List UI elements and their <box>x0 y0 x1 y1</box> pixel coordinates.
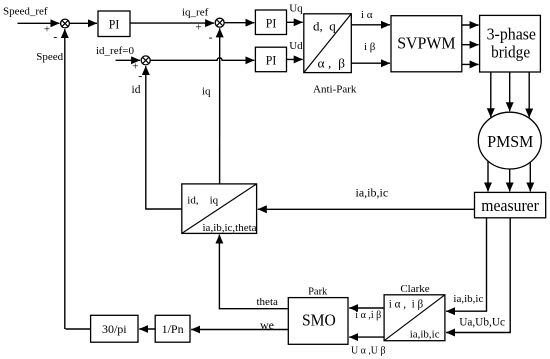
svg-text:-: - <box>138 69 142 83</box>
svg-text:id, iq: id, iq <box>187 194 218 206</box>
svg-text:PI: PI <box>266 16 277 31</box>
svg-text:PI: PI <box>266 52 277 67</box>
svg-text:theta: theta <box>257 296 278 308</box>
svg-text:measurer: measurer <box>481 196 539 215</box>
svg-text:Uq: Uq <box>289 3 303 15</box>
svg-text:ia,ib,ic: ia,ib,ic <box>453 293 483 305</box>
svg-text:ia,ib,ic: ia,ib,ic <box>410 328 440 340</box>
svg-text:3-phase: 3-phase <box>487 24 536 43</box>
svg-text:i α ,i β: i α ,i β <box>355 310 381 321</box>
svg-text:ia,ib,ic,theta: ia,ib,ic,theta <box>203 222 257 234</box>
svg-text:Speed_ref: Speed_ref <box>3 6 48 18</box>
svg-text:α , β: α , β <box>318 57 346 71</box>
svg-text:U α ,U β: U α ,U β <box>351 344 386 356</box>
svg-text:SVPWM: SVPWM <box>397 34 456 53</box>
svg-text:i α , i β: i α , i β <box>389 298 424 310</box>
svg-text:Speed: Speed <box>36 51 63 63</box>
svg-text:we: we <box>260 318 274 332</box>
svg-text:+: + <box>44 23 50 35</box>
svg-text:+: + <box>195 22 201 34</box>
svg-text:-: - <box>209 30 213 44</box>
svg-text:ia,ib,ic: ia,ib,ic <box>356 186 389 200</box>
svg-text:Ua,Ub,Uc: Ua,Ub,Uc <box>459 317 505 329</box>
svg-text:id_ref=0: id_ref=0 <box>96 45 134 57</box>
svg-text:iq: iq <box>202 85 211 97</box>
svg-text:Park: Park <box>308 286 328 297</box>
svg-text:id: id <box>132 84 141 96</box>
svg-text:Anti-Park: Anti-Park <box>313 84 357 96</box>
svg-text:iq_ref: iq_ref <box>182 7 209 19</box>
svg-text:30/pi: 30/pi <box>102 322 127 336</box>
svg-text:i α: i α <box>361 9 373 21</box>
svg-text:Clarke: Clarke <box>400 283 429 295</box>
svg-text:PMSM: PMSM <box>487 132 533 151</box>
svg-text:PI: PI <box>109 17 120 32</box>
svg-text:Ud: Ud <box>289 40 303 52</box>
svg-text:SMO: SMO <box>302 311 336 330</box>
svg-text:-: - <box>53 30 57 44</box>
svg-text:bridge: bridge <box>491 43 530 62</box>
svg-text:d, q: d, q <box>313 18 336 33</box>
svg-text:1/Pn: 1/Pn <box>162 322 184 336</box>
svg-text:i β: i β <box>364 41 376 53</box>
